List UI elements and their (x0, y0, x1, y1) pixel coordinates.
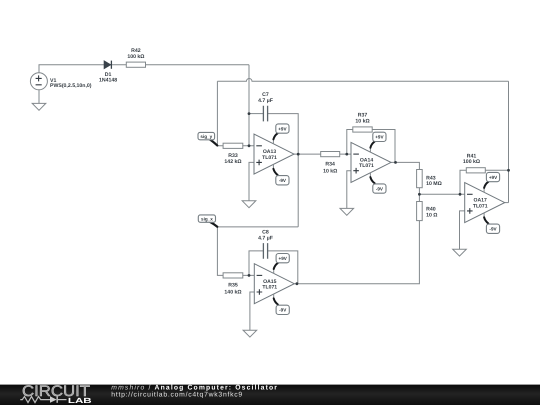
op-amp OA13 (254, 134, 294, 174)
wire OA14 non-inverting input to ground (347, 171, 351, 209)
wire OA15 non-inverting input to ground (250, 292, 254, 330)
ground below OA13 (242, 201, 256, 208)
svg-text:+9V: +9V (278, 126, 287, 131)
op-amp OA14 (351, 142, 391, 182)
svg-text:-9V: -9V (279, 178, 287, 183)
svg-text:4.7 µF: 4.7 µF (258, 98, 273, 104)
ground below V1 (32, 103, 46, 110)
wire OA17 non-inverting input to ground (460, 211, 465, 249)
svg-text:100 kΩ: 100 kΩ (127, 54, 144, 60)
svg-text:1N4148: 1N4148 (99, 78, 117, 84)
wire OA14 output to R43 top (391, 162, 419, 169)
wire R43 bottom to R40 top (418, 188, 420, 202)
wire sig_x down and R35 run to OA15 inverting input (217, 227, 254, 276)
svg-text:+9V: +9V (279, 256, 288, 261)
wire OA17 feedback loop through R41 (460, 170, 509, 194)
wire C7 left stub (249, 113, 263, 115)
svg-text:10 kΩ: 10 kΩ (355, 118, 369, 124)
svg-text:TL071: TL071 (262, 155, 277, 161)
flag sig_y (198, 132, 217, 145)
junction OA14 output (394, 161, 397, 164)
footer bar (0, 385, 540, 405)
wire OA13 output to OA14 inverting input (294, 153, 351, 155)
junction OA13 output (297, 153, 300, 156)
resistor R34 (321, 152, 340, 175)
wire R43 R40 junction to OA17 inverting input (419, 193, 464, 195)
junction R41 right (507, 169, 510, 172)
junction OA17 inverting input (459, 193, 462, 196)
flag -9V OA17 (484, 213, 500, 234)
junction node A (248, 112, 251, 115)
svg-text:TL071: TL071 (359, 163, 374, 169)
svg-text:LAB: LAB (68, 396, 92, 405)
wire R40 bottom to OA15 output (294, 221, 419, 284)
svg-text:10 MΩ: 10 MΩ (426, 181, 442, 187)
svg-text:10 kΩ: 10 kΩ (323, 168, 337, 174)
wire C8 right down to OA15 output (268, 251, 298, 284)
wire V1 bottom to ground (38, 90, 40, 104)
svg-text:-9V: -9V (376, 186, 384, 191)
svg-text:10 Ω: 10 Ω (426, 212, 437, 218)
svg-text:+9V: +9V (489, 175, 498, 180)
flag -9V OA14 (370, 173, 386, 194)
flag +9V OA13 (273, 124, 289, 144)
svg-text:142 kΩ: 142 kΩ (224, 159, 241, 165)
footer title text (111, 385, 278, 399)
svg-text:4.7 µF: 4.7 µF (258, 235, 273, 241)
ground below OA14 (340, 208, 354, 215)
svg-text:R34: R34 (325, 162, 335, 168)
op-amp OA17 (465, 183, 505, 223)
resistor R42 (126, 48, 145, 67)
resistor R37 (353, 113, 372, 133)
resistor R35 (223, 273, 243, 296)
svg-text:sig_y: sig_y (200, 134, 212, 139)
svg-text:TL071: TL071 (262, 284, 277, 290)
svg-text:+9V: +9V (375, 135, 384, 140)
wire OA13 non-inverting input to ground (249, 162, 254, 200)
wire C8 left stub (249, 251, 263, 276)
wire sig_x horizontal run (217, 226, 298, 228)
wire OA14 feedback loop through R37 (347, 130, 395, 163)
wire C7 right to OA13 output, down to sig_x run (268, 114, 299, 227)
flag +9V OA17 (484, 172, 500, 192)
junction R43 R40 (418, 193, 421, 196)
resistor R43 (417, 170, 442, 188)
svg-text:R35: R35 (228, 282, 238, 288)
capacitor C7 (258, 92, 273, 121)
svg-text:140 kΩ: 140 kΩ (224, 289, 241, 295)
wire V1 top to node A corner (39, 65, 249, 73)
svg-text:sig_x: sig_x (201, 216, 213, 221)
junction OA15 inverting input (248, 274, 251, 277)
wire OA17 output stub (505, 202, 509, 204)
svg-text:-9V: -9V (489, 227, 497, 232)
resistor R41 (463, 153, 485, 173)
wire sig_y R33 run to OA13 inverting input (217, 145, 254, 147)
junction OA13 inverting input (248, 144, 251, 147)
svg-text:mmshiro / Analog Computer: Osc: mmshiro / Analog Computer: Oscillator (111, 385, 278, 392)
capacitor C8 (258, 230, 273, 259)
op-amp OA15 (254, 264, 294, 304)
svg-text:PWS(0,2.5,10n,0): PWS(0,2.5,10n,0) (50, 83, 92, 89)
diode D1 (99, 61, 117, 84)
svg-text:100 kΩ: 100 kΩ (463, 159, 480, 165)
ground below OA17 (453, 249, 467, 256)
svg-text:http://circuitlab.com/c4tq7wk3: http://circuitlab.com/c4tq7wk3nfkc9 (111, 392, 243, 399)
flag +9V OA15 (274, 254, 290, 274)
junction OA15 output (296, 282, 299, 285)
wire node A vertical down to OA13 inverting input (248, 65, 250, 146)
svg-text:-9V: -9V (279, 308, 287, 313)
flag -9V OA15 (274, 294, 290, 315)
wire right vertical feedback down to OA17 output (508, 81, 510, 202)
resistor R40 (417, 202, 438, 221)
footer CircuitLab logo (20, 383, 91, 405)
flag +9V OA14 (370, 132, 386, 152)
junction OA14 inverting input (345, 153, 348, 156)
svg-text:TL071: TL071 (473, 203, 488, 209)
flag sig_x (198, 215, 217, 227)
wire top feedback with hop over node A (217, 79, 508, 82)
resistor R33 (223, 143, 243, 165)
flag -9V OA13 (273, 164, 289, 185)
wire sig_y vertical up (216, 81, 218, 146)
ground below OA15 (243, 330, 257, 337)
voltage source V1 (30, 73, 91, 90)
